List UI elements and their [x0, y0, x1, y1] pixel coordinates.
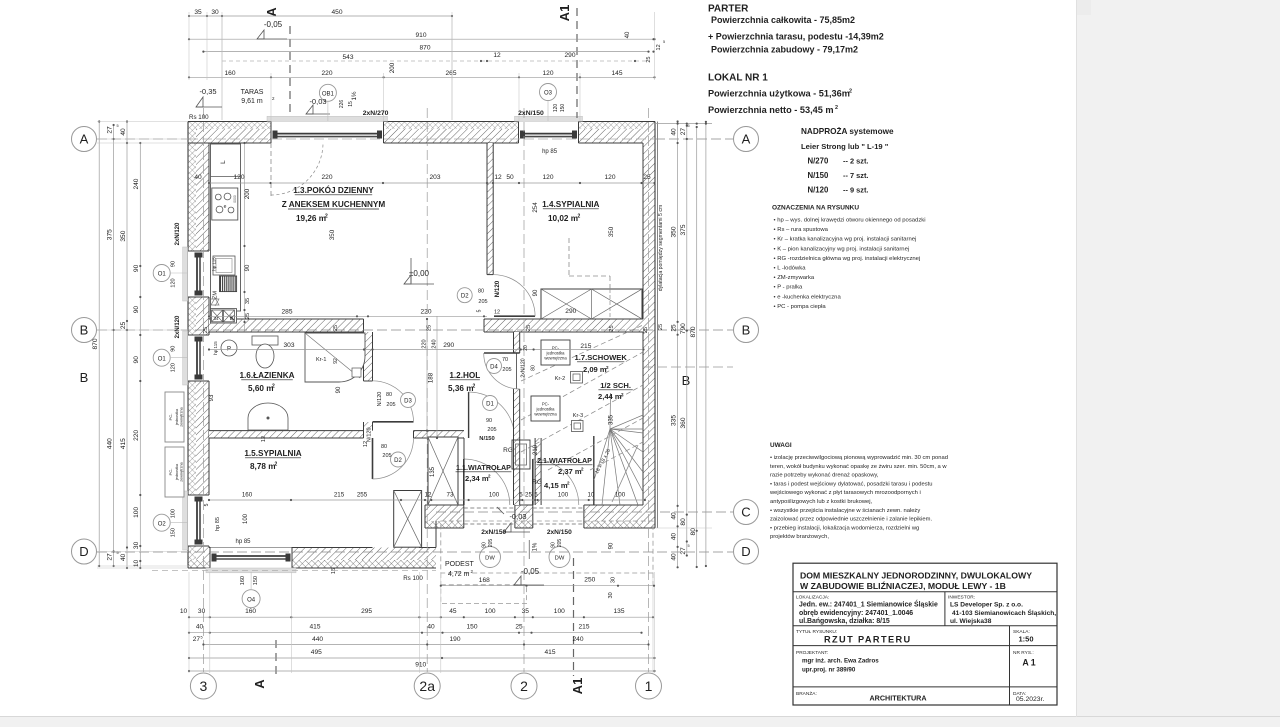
svg-text:N/120: N/120	[494, 280, 501, 297]
svg-text:DW: DW	[485, 556, 495, 562]
svg-text:90: 90	[133, 356, 140, 364]
svg-text:antypoślizgowych lub z kostki: antypoślizgowych lub z kostki brukowej,	[770, 499, 873, 505]
svg-text:1:50: 1:50	[1018, 635, 1033, 644]
svg-text:8,78 m: 8,78 m	[250, 462, 276, 471]
svg-text:2: 2	[275, 462, 278, 468]
svg-text:215: 215	[578, 623, 589, 630]
svg-text:zewnętrzna: zewnętrzna	[180, 406, 184, 426]
svg-text:360: 360	[680, 417, 687, 428]
svg-text:• ZM-zmywarka: • ZM-zmywarka	[774, 275, 815, 281]
svg-text:RG: RG	[532, 479, 542, 486]
svg-text:2: 2	[621, 392, 624, 397]
svg-text:A: A	[742, 132, 751, 147]
svg-text:NR RYS.:: NR RYS.:	[1013, 650, 1034, 656]
svg-text:O1: O1	[158, 272, 167, 278]
svg-text:wejściowego wykonać z płyt ta: wejściowego wykonać z płyt tarasowych mr…	[769, 490, 921, 496]
svg-text:2xN/150: 2xN/150	[481, 529, 506, 536]
svg-text:O1: O1	[158, 356, 167, 362]
svg-text:2: 2	[578, 214, 581, 220]
svg-text:+ Powierzchnia tarasu, podest: + Powierzchnia tarasu, podestu -14,39m2	[708, 32, 884, 42]
svg-text:-0,35: -0,35	[199, 87, 216, 96]
svg-text:LOKAL NR 1: LOKAL NR 1	[708, 73, 768, 84]
svg-text:220: 220	[420, 309, 431, 316]
svg-text:DOM MIESZKALNY JEDNORODZINNY,: DOM MIESZKALNY JEDNORODZINNY, DWULOKALOW…	[800, 570, 1032, 580]
svg-text:290: 290	[443, 342, 454, 349]
svg-text:K: K	[230, 316, 235, 322]
svg-text:40: 40	[194, 174, 202, 181]
svg-text:200: 200	[389, 62, 396, 73]
svg-text:B: B	[742, 323, 751, 338]
svg-text:160: 160	[224, 70, 235, 77]
svg-text:12: 12	[493, 52, 501, 59]
svg-text:35: 35	[245, 298, 251, 304]
svg-text:25: 25	[643, 327, 649, 333]
svg-text:100: 100	[171, 509, 177, 518]
svg-text:25: 25	[120, 322, 127, 330]
svg-text:40: 40	[671, 553, 678, 561]
svg-text:226: 226	[339, 100, 345, 109]
svg-text:135: 135	[430, 466, 436, 477]
svg-text:40: 40	[671, 533, 678, 541]
svg-text:Powierzchnia całkowita - 7: Powierzchnia całkowita - 75,85m2	[711, 15, 855, 25]
svg-text:34: 34	[213, 316, 219, 321]
svg-text:B: B	[80, 323, 89, 338]
svg-text:73: 73	[447, 492, 454, 499]
svg-text:Kr-2: Kr-2	[555, 376, 565, 382]
svg-text:RG: RG	[503, 447, 513, 454]
svg-text:205: 205	[557, 539, 563, 548]
svg-text:100: 100	[558, 492, 569, 499]
svg-text:• K – pion kanalizacyjny wg pr: • K – pion kanalizacyjny wg proj. instal…	[774, 246, 910, 252]
svg-text:150: 150	[560, 104, 566, 113]
svg-text:2: 2	[325, 214, 328, 220]
svg-text:255: 255	[357, 492, 368, 499]
svg-text:90: 90	[171, 346, 177, 352]
svg-text:350: 350	[608, 226, 615, 237]
svg-text:188: 188	[428, 372, 435, 383]
svg-text:90: 90	[171, 261, 177, 267]
svg-text:30: 30	[133, 541, 140, 549]
svg-text:D2: D2	[461, 294, 469, 300]
svg-text:D4: D4	[490, 364, 498, 370]
svg-text:90: 90	[609, 542, 615, 549]
svg-text:1.6.ŁAZIENKA: 1.6.ŁAZIENKA	[239, 371, 294, 380]
svg-text:N/120: N/120	[377, 392, 383, 407]
svg-text:415: 415	[120, 438, 127, 449]
svg-text:wewnętrzna: wewnętrzna	[544, 356, 567, 361]
svg-text:30: 30	[198, 608, 206, 615]
svg-text:1%: 1%	[351, 91, 358, 100]
svg-text:Leier Strong lub " L-19 ": Leier Strong lub " L-19 "	[801, 142, 889, 151]
svg-text:hp 115: hp 115	[212, 257, 217, 271]
svg-text:100: 100	[133, 507, 140, 518]
svg-text:-0,03: -0,03	[309, 97, 326, 106]
svg-text:PODEST: PODEST	[445, 561, 475, 568]
svg-text:5,36 m: 5,36 m	[448, 384, 474, 393]
svg-text:303: 303	[283, 342, 294, 349]
svg-text:27: 27	[193, 636, 201, 643]
svg-text:160: 160	[242, 492, 253, 499]
svg-text:2: 2	[581, 467, 584, 472]
svg-text:N/120: N/120	[808, 186, 829, 195]
svg-text:295: 295	[361, 608, 372, 615]
svg-text:±0,00: ±0,00	[409, 269, 430, 278]
svg-text:27: 27	[680, 547, 687, 555]
svg-text:LS Developer Sp. z o.o.: LS Developer Sp. z o.o.	[950, 602, 1023, 609]
svg-text:• taras i podest wejściowy dyl: • taras i podest wejściowy dylatować, po…	[770, 481, 933, 487]
svg-text:350: 350	[120, 230, 127, 241]
svg-text:• izolację przeciwwilgociową p: • izolację przeciwwilgociową pionową wyp…	[770, 455, 948, 461]
svg-text:2: 2	[567, 481, 570, 486]
svg-text:1.7.SCHOWEK: 1.7.SCHOWEK	[575, 353, 628, 362]
svg-text:• L -lodówka: • L -lodówka	[774, 266, 807, 272]
svg-text:90: 90	[550, 542, 556, 548]
svg-text:375: 375	[680, 224, 687, 235]
svg-text:• PC - pompa ciepła: • PC - pompa ciepła	[774, 304, 827, 310]
svg-text:45: 45	[449, 608, 457, 615]
svg-text:5,60 m: 5,60 m	[248, 384, 274, 393]
svg-text:25: 25	[609, 325, 615, 331]
svg-text:2: 2	[835, 105, 838, 111]
svg-text:D: D	[741, 544, 750, 559]
svg-text:-0,03: -0,03	[509, 512, 526, 521]
svg-text:910: 910	[415, 32, 426, 39]
svg-text:OZNACZENIA NA RYSUNKU: OZNACZENIA NA RYSUNKU	[772, 205, 859, 212]
svg-text:4,15 m: 4,15 m	[544, 481, 568, 490]
svg-text:30: 30	[211, 9, 219, 16]
svg-text:120: 120	[171, 363, 177, 372]
svg-text:2: 2	[272, 384, 275, 390]
svg-text:-- 7 szt.: -- 7 szt.	[843, 171, 868, 180]
svg-text:A: A	[80, 132, 89, 147]
svg-text:N/270: N/270	[808, 157, 829, 166]
svg-text:335: 335	[609, 414, 615, 425]
svg-text:A1: A1	[570, 678, 585, 695]
svg-text:L: L	[220, 160, 227, 164]
svg-text:495: 495	[311, 649, 322, 656]
svg-text:350: 350	[329, 229, 336, 240]
svg-text:450: 450	[331, 9, 342, 16]
svg-text:ul.Bańgowska, działka: 8/15: ul.Bańgowska, działka: 8/15	[799, 618, 890, 625]
svg-text:2xN/270: 2xN/270	[363, 110, 389, 117]
svg-text:100: 100	[243, 513, 249, 524]
svg-text:2,44 m: 2,44 m	[598, 392, 622, 401]
svg-text:870: 870	[92, 338, 99, 349]
svg-text:220: 220	[321, 174, 332, 181]
svg-text:LOKALIZACJA:: LOKALIZACJA:	[796, 595, 829, 601]
svg-text:zaizolować przez odpowiednie u: zaizolować przez odpowiednie uszczelnien…	[770, 517, 932, 523]
svg-text:• P - pralka: • P - pralka	[774, 285, 804, 291]
svg-text:90: 90	[336, 386, 342, 393]
svg-text:5: 5	[688, 124, 690, 128]
svg-text:NADPROŻA systemowe: NADPROŻA systemowe	[801, 126, 894, 136]
svg-text:2xN/150: 2xN/150	[547, 529, 572, 536]
svg-text:10: 10	[588, 492, 595, 499]
svg-text:2xN/120: 2xN/120	[521, 358, 527, 377]
svg-text:12: 12	[494, 310, 500, 316]
svg-text:120: 120	[171, 278, 177, 287]
svg-text:220: 220	[133, 430, 140, 441]
svg-text:wewnętrzna: wewnętrzna	[534, 412, 557, 417]
svg-text:1%: 1%	[533, 542, 539, 551]
svg-text:910: 910	[415, 662, 426, 669]
svg-text:220: 220	[421, 339, 427, 348]
svg-text:5: 5	[519, 492, 523, 499]
svg-text:2a: 2a	[419, 678, 435, 694]
svg-text:BRANŻA:: BRANŻA:	[796, 690, 817, 697]
svg-text:30: 30	[608, 592, 614, 598]
svg-text:93: 93	[209, 394, 215, 401]
svg-text:80: 80	[690, 528, 697, 536]
svg-text:20: 20	[523, 345, 529, 351]
svg-text:35: 35	[522, 608, 530, 615]
svg-text:205: 205	[487, 427, 496, 433]
svg-text:• Rs – rura spustowa: • Rs – rura spustowa	[774, 227, 829, 233]
svg-text:upr.proj. nr 389/90: upr.proj. nr 389/90	[802, 667, 856, 674]
svg-text:10: 10	[180, 608, 188, 615]
svg-text:• RG -rozdzielnica główna wg p: • RG -rozdzielnica główna wg proj. insta…	[774, 256, 921, 262]
svg-text:27: 27	[680, 128, 687, 136]
svg-text:10,02 m: 10,02 m	[548, 214, 578, 223]
svg-text:O2: O2	[158, 521, 167, 527]
svg-text:290: 290	[565, 308, 576, 315]
svg-text:35: 35	[194, 9, 202, 16]
svg-text:obręb ewidencyjny: 247401_1.00: obręb ewidencyjny: 247401_1.0046	[799, 610, 913, 617]
svg-text:15: 15	[348, 101, 354, 107]
svg-text:D3: D3	[404, 398, 412, 404]
svg-text:W ZABUDOWIE BLIŹNIACZEJ, MODUŁ: W ZABUDOWIE BLIŹNIACZEJ, MODUŁ LEWY - 1B	[800, 581, 1006, 591]
svg-text:Jedn. ew.: 247401_1 Siemianowi: Jedn. ew.: 247401_1 Siemianowice Śląskie	[799, 600, 938, 609]
svg-text:27: 27	[106, 553, 113, 561]
svg-text:0000: 0000	[233, 195, 237, 203]
svg-text:440: 440	[312, 636, 323, 643]
svg-text:25: 25	[515, 623, 523, 630]
svg-text:25: 25	[427, 325, 433, 331]
svg-text:3: 3	[200, 678, 208, 694]
svg-text:-- 2 szt.: -- 2 szt.	[843, 157, 868, 166]
svg-text:DW: DW	[555, 556, 565, 562]
svg-text:40: 40	[120, 554, 127, 562]
svg-text:100: 100	[615, 492, 626, 499]
svg-text:160: 160	[240, 576, 246, 585]
svg-text:250: 250	[584, 577, 595, 584]
svg-text:5: 5	[663, 40, 665, 44]
svg-text:INWESTOR:: INWESTOR:	[948, 595, 975, 601]
svg-text:2.1.WIATROŁAP: 2.1.WIATROŁAP	[537, 456, 592, 465]
svg-text:O3: O3	[544, 91, 553, 97]
svg-text:25: 25	[333, 325, 339, 331]
svg-text:2,37 m: 2,37 m	[558, 467, 582, 476]
svg-text:25: 25	[526, 325, 532, 331]
svg-text:12: 12	[494, 174, 502, 181]
svg-text:1/2 SCH.: 1/2 SCH.	[600, 381, 631, 390]
svg-text:PC-: PC-	[168, 468, 173, 476]
svg-text:90: 90	[486, 418, 492, 424]
svg-text:200: 200	[244, 188, 251, 199]
svg-text:1.4.SYPIALNIA: 1.4.SYPIALNIA	[542, 200, 599, 209]
svg-text:40: 40	[120, 128, 127, 136]
svg-text:PARTER: PARTER	[708, 4, 749, 15]
svg-text:25: 25	[203, 327, 209, 333]
svg-text:2: 2	[473, 384, 476, 390]
svg-text:2,09 m: 2,09 m	[583, 365, 607, 374]
svg-text:215: 215	[334, 492, 345, 499]
svg-text:120: 120	[542, 174, 553, 181]
svg-text:543: 543	[342, 54, 353, 61]
svg-text:25: 25	[658, 324, 664, 330]
svg-text:254: 254	[532, 202, 539, 213]
svg-text:160: 160	[245, 608, 256, 615]
svg-text:350: 350	[671, 226, 678, 237]
svg-text:215: 215	[580, 343, 591, 350]
svg-text:205: 205	[488, 539, 494, 548]
svg-text:Powierzchnia użytkowa - 51,36: Powierzchnia użytkowa - 51,36m	[708, 89, 850, 99]
svg-text:teren, wokół budynku wykonać o: teren, wokół budynku wykonać opaskę ze ż…	[770, 464, 947, 470]
svg-text:• e -kuchenka elektryczna: • e -kuchenka elektryczna	[774, 294, 842, 300]
svg-text:5: 5	[534, 492, 538, 499]
svg-text:1: 1	[645, 678, 653, 694]
svg-text:25: 25	[525, 492, 532, 499]
svg-text:-0,05: -0,05	[521, 567, 540, 576]
svg-text:jednostka: jednostka	[175, 463, 179, 481]
svg-text:92: 92	[333, 358, 339, 364]
svg-text:B: B	[80, 370, 89, 385]
svg-text:2xN/150: 2xN/150	[518, 110, 544, 117]
svg-text:265: 265	[445, 70, 456, 77]
svg-text:05.2023r.: 05.2023r.	[1016, 696, 1044, 703]
svg-text:90: 90	[133, 264, 140, 272]
svg-text:mgr inż. arch. Ewa Zadros: mgr inż. arch. Ewa Zadros	[802, 658, 879, 665]
svg-text:Kr-1: Kr-1	[316, 357, 326, 363]
svg-text:220: 220	[321, 70, 332, 77]
svg-text:PROJEKTANT:: PROJEKTANT:	[796, 650, 828, 656]
svg-text:1.5.SYPIALNIA: 1.5.SYPIALNIA	[244, 449, 301, 458]
svg-text:205: 205	[478, 299, 487, 305]
svg-text:25: 25	[646, 57, 652, 63]
svg-text:335: 335	[671, 415, 678, 426]
svg-text:40: 40	[671, 128, 678, 136]
svg-text:145: 145	[611, 70, 622, 77]
svg-text:240: 240	[572, 636, 583, 643]
svg-text:90: 90	[133, 306, 140, 314]
svg-text:240: 240	[133, 178, 140, 189]
svg-text:50: 50	[506, 174, 514, 181]
svg-text:TARAS: TARAS	[241, 89, 264, 96]
svg-text:12: 12	[261, 436, 267, 442]
svg-text:5: 5	[204, 503, 210, 506]
svg-text:790: 790	[680, 323, 687, 334]
svg-text:120: 120	[233, 174, 244, 181]
svg-text:415: 415	[309, 623, 320, 630]
svg-text:• Kr – kratka kanalizacyjna wg: • Kr – kratka kanalizacyjna wg proj. ins…	[774, 237, 917, 243]
svg-text:90: 90	[533, 289, 539, 296]
svg-text:4,72 m: 4,72 m	[448, 571, 470, 578]
svg-text:hp 115: hp 115	[213, 341, 218, 355]
svg-text:2: 2	[606, 365, 609, 370]
svg-text:A 1: A 1	[1022, 658, 1035, 668]
svg-text:27: 27	[106, 126, 113, 134]
svg-text:150: 150	[466, 623, 477, 630]
svg-text:168: 168	[479, 577, 490, 584]
svg-text:5: 5	[688, 544, 690, 548]
svg-text:80: 80	[381, 444, 387, 450]
svg-text:A: A	[252, 679, 267, 689]
svg-text:285: 285	[281, 309, 292, 316]
svg-text:135: 135	[613, 608, 624, 615]
svg-text:25: 25	[671, 324, 678, 332]
svg-text:• hp – wys. dolnej krawędzi ot: • hp – wys. dolnej krawędzi otworu okien…	[774, 218, 926, 224]
svg-text:razie potrzeby wykonać drenaż: razie potrzeby wykonać drenaż opaskowy,	[770, 473, 879, 479]
svg-text:• przebieg instalacji, lokaliz: • przebieg instalacji, lokalizacja wodom…	[770, 525, 919, 531]
svg-text:15: 15	[331, 568, 337, 574]
svg-text:ZM: ZM	[213, 291, 219, 299]
svg-text:870: 870	[690, 326, 697, 337]
svg-text:100: 100	[489, 492, 500, 499]
svg-text:70: 70	[502, 357, 508, 363]
svg-text:120: 120	[553, 104, 559, 113]
svg-text:12: 12	[425, 492, 432, 499]
svg-text:12: 12	[656, 44, 662, 50]
svg-text:120: 120	[604, 174, 615, 181]
svg-text:80: 80	[386, 392, 392, 398]
svg-text:210: 210	[533, 444, 539, 455]
svg-text:100: 100	[554, 608, 565, 615]
svg-text:80: 80	[478, 289, 484, 295]
svg-text:projektów branżowych,: projektów branżowych,	[770, 534, 829, 540]
svg-text:-- 9 szt.: -- 9 szt.	[843, 186, 868, 195]
svg-text:41-103 Siemianowicach Śląskich: 41-103 Siemianowicach Śląskich,	[952, 608, 1056, 617]
svg-text:A1: A1	[557, 5, 572, 22]
svg-text:UWAGI: UWAGI	[770, 442, 792, 449]
svg-text:hp 85: hp 85	[542, 149, 558, 155]
svg-text:ul. Wiejska38: ul. Wiejska38	[950, 618, 992, 625]
svg-text:1.3.POKÓJ DZIENNY: 1.3.POKÓJ DZIENNY	[293, 184, 374, 195]
svg-text:RZUT PARTERU: RZUT PARTERU	[824, 635, 912, 645]
svg-text:90: 90	[245, 264, 251, 271]
svg-text:A: A	[264, 7, 279, 17]
svg-text:440: 440	[106, 438, 113, 449]
svg-text:205: 205	[386, 402, 395, 408]
svg-text:5: 5	[117, 124, 119, 128]
svg-text:ARCHITEKTURA: ARCHITEKTURA	[869, 694, 926, 703]
svg-text:N/120: N/120	[367, 427, 373, 442]
svg-text:205: 205	[382, 453, 391, 459]
svg-text:375: 375	[106, 229, 113, 240]
svg-text:B: B	[682, 373, 691, 388]
svg-text:Rs 100: Rs 100	[403, 575, 423, 582]
svg-text:40: 40	[625, 31, 631, 38]
svg-text:D: D	[79, 544, 88, 559]
svg-text:PC-: PC-	[168, 413, 173, 421]
svg-text:190: 190	[449, 636, 460, 643]
svg-text:2xN/120: 2xN/120	[175, 222, 181, 245]
svg-text:100: 100	[485, 608, 496, 615]
svg-text:D1: D1	[486, 401, 494, 407]
svg-text:Kr-3: Kr-3	[573, 413, 583, 419]
svg-text:N/150: N/150	[479, 436, 494, 442]
svg-text:150: 150	[171, 528, 177, 537]
svg-text:hp 85: hp 85	[215, 517, 221, 531]
svg-text:290: 290	[564, 52, 575, 59]
svg-text:415: 415	[544, 649, 555, 656]
svg-text:Rs 100: Rs 100	[189, 114, 209, 121]
svg-text:120: 120	[542, 70, 553, 77]
svg-text:hp 85: hp 85	[235, 539, 251, 545]
svg-text:2: 2	[849, 89, 852, 95]
svg-text:2xN/120: 2xN/120	[175, 315, 181, 338]
svg-text:870: 870	[419, 44, 430, 51]
svg-text:Z ANEKSEM KUCHENNYM: Z ANEKSEM KUCHENNYM	[282, 200, 386, 209]
